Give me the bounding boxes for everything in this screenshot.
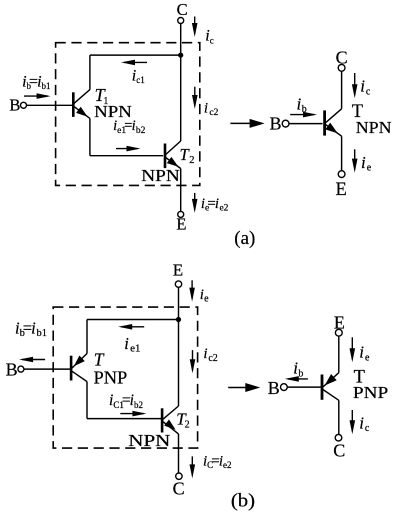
terminal E (composite emitter, b) <box>173 260 183 287</box>
label i_c1 (a) <box>132 67 145 85</box>
wire base equivalent (b) <box>287 386 321 388</box>
terminal E equivalent (b) <box>334 312 345 336</box>
wire base (a) <box>27 104 73 106</box>
wire top inner (b) <box>87 319 179 321</box>
label PNP equivalent (b) <box>353 383 388 402</box>
svg-text:NPN: NPN <box>356 118 392 137</box>
svg-text:ib: ib <box>297 94 307 115</box>
label i_e equivalent (b) <box>359 343 370 364</box>
svg-text:ic: ic <box>359 414 370 435</box>
label T1 (b) <box>94 349 105 369</box>
junction node (a) <box>178 53 183 58</box>
label T equivalent (a) <box>352 102 363 122</box>
svg-text:ie: ie <box>359 343 370 364</box>
caption (a) <box>234 228 255 249</box>
terminal C (composite collector, a) <box>177 0 188 24</box>
current arrow i_C (b) <box>190 456 196 478</box>
transistor T equivalent (b) <box>322 375 339 435</box>
dashed box (b) <box>53 307 197 448</box>
svg-text:ib=ib1: ib=ib1 <box>22 73 50 91</box>
svg-text:(a): (a) <box>234 228 255 249</box>
wire emitter equivalent (b) <box>323 336 339 387</box>
label i_b=i_b1 (b) <box>15 318 47 339</box>
svg-text:NPN: NPN <box>141 166 179 185</box>
arrow i_b2 (b) <box>120 411 146 417</box>
wire collector equivalent (a) <box>325 71 341 123</box>
current arrow i_c2 (a) <box>192 87 198 109</box>
base current arrow (b) <box>19 357 45 363</box>
svg-text:E: E <box>173 260 183 279</box>
label NPN equivalent (a) <box>356 118 392 137</box>
terminal B (a) <box>9 96 26 115</box>
current arrow i_c equivalent (b) <box>350 410 356 434</box>
svg-text:T: T <box>94 349 105 369</box>
label i_c equivalent (b) <box>359 414 370 435</box>
label T1 (a) <box>95 85 109 107</box>
label i_e=i_e2 (a) <box>201 196 229 214</box>
svg-text:ic2: ic2 <box>203 346 217 364</box>
svg-text:T2: T2 <box>180 145 195 166</box>
label NPN T1 (a) <box>94 102 132 121</box>
svg-text:ic: ic <box>205 28 213 46</box>
wire collector1-base2 (b) <box>87 418 161 420</box>
label i_e equivalent (a) <box>361 153 372 174</box>
terminal C (composite collector, b) <box>173 473 185 498</box>
svg-text:ic: ic <box>360 77 371 98</box>
wire base equivalent (a) <box>289 123 323 125</box>
svg-text:iC1=ib2: iC1=ib2 <box>109 392 143 410</box>
current arrow i_c1 (a) <box>121 60 147 66</box>
current arrow i_e (b) <box>189 280 195 301</box>
arrow i_b2 (a) <box>116 146 141 152</box>
svg-text:iC=ie2: iC=ie2 <box>203 454 232 471</box>
svg-text:(b): (b) <box>231 491 255 512</box>
svg-text:ie=ie2: ie=ie2 <box>201 196 229 214</box>
label i_b equivalent (a) <box>297 94 307 115</box>
wire emitter1-base2 (a) <box>90 155 163 157</box>
terminal C equivalent (b) <box>333 434 345 460</box>
equivalence arrow (a) <box>230 119 264 128</box>
equivalence arrow (b) <box>228 383 260 392</box>
base arrow equivalent (b) <box>285 376 308 382</box>
label i_c2 (b) <box>203 346 217 364</box>
current arrow i_e equivalent (b) <box>350 337 356 362</box>
current arrow i_c2 (b) <box>190 350 196 373</box>
svg-text:PNP: PNP <box>94 367 128 387</box>
wire base (b) <box>24 368 70 370</box>
base current arrow (a) <box>24 93 51 99</box>
terminal C equivalent (a) <box>336 48 348 72</box>
label i_c2 (a) <box>204 100 219 118</box>
svg-text:ic1: ic1 <box>132 67 145 85</box>
svg-text:T2: T2 <box>176 409 189 430</box>
svg-text:B: B <box>270 114 282 134</box>
transistor Q T2 (a) <box>165 141 181 211</box>
current arrow i_e1 (b) <box>118 324 144 330</box>
current arrow i_e (a) <box>192 193 198 213</box>
svg-text:E: E <box>176 215 186 234</box>
svg-text:PNP: PNP <box>353 383 388 402</box>
svg-text:B: B <box>9 96 20 115</box>
caption (b) <box>231 491 255 512</box>
transistor Q T2 (b) <box>162 406 178 473</box>
transistor Q T1 (a) <box>73 55 90 156</box>
svg-text:ie: ie <box>200 287 209 305</box>
current arrow i_c equivalent (a) <box>352 73 358 98</box>
label i_C1=i_b2 (b) <box>109 392 143 410</box>
label i_b equivalent (b) <box>293 359 303 380</box>
label i_c equivalent (a) <box>360 77 371 98</box>
current arrow i_e equivalent (a) <box>352 149 358 172</box>
label T equivalent (b) <box>354 368 365 388</box>
svg-text:C: C <box>177 0 188 19</box>
svg-text:ib: ib <box>293 359 303 380</box>
label T2 (b) <box>176 409 189 430</box>
svg-text:C: C <box>333 441 345 461</box>
svg-text:ie: ie <box>361 153 372 174</box>
svg-text:E: E <box>336 180 347 200</box>
terminal B (b) <box>6 360 24 380</box>
transistor T equivalent (a) <box>325 110 342 170</box>
transistor Q T1 PNP (b) <box>71 320 87 419</box>
svg-text:B: B <box>268 378 280 398</box>
terminal E (a) <box>176 211 186 233</box>
wire E vertical (b) <box>178 287 180 406</box>
svg-text:ic2: ic2 <box>204 100 219 118</box>
svg-text:C: C <box>173 478 185 498</box>
label T2 (a) <box>180 145 195 166</box>
svg-text:NPN: NPN <box>128 431 170 450</box>
label NPN T2 (a) <box>141 166 179 185</box>
label i_b=i_b1 (a) <box>22 73 50 91</box>
label i_e1=i_b2 (a) <box>113 118 146 136</box>
svg-text:ib=ib1: ib=ib1 <box>15 318 47 339</box>
label i_e (b) <box>200 287 209 305</box>
dashed box (a) <box>56 43 200 186</box>
label NPN T2 (b) <box>128 431 170 450</box>
wire C vertical (a) <box>180 24 182 142</box>
label i_e1 (b) <box>124 334 140 355</box>
current arrow i_c (a) <box>192 17 198 38</box>
terminal B equivalent (a) <box>270 114 290 134</box>
terminal B equivalent (b) <box>268 378 288 398</box>
label i_c (a) <box>205 28 213 46</box>
svg-text:ie1: ie1 <box>124 334 140 355</box>
terminal E equivalent (a) <box>336 171 347 200</box>
svg-text:B: B <box>6 360 18 380</box>
label PNP T1 (b) <box>94 367 128 387</box>
label i_C=i_e2 (b) <box>203 454 232 471</box>
base arrow equivalent (a) <box>290 112 317 118</box>
wire top inner (a) <box>90 54 181 56</box>
junction node (b) <box>176 317 181 322</box>
